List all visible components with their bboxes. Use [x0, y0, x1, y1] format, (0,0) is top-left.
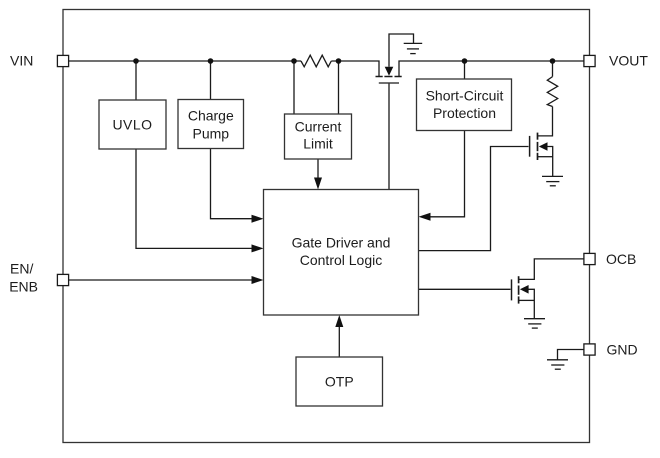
block Charge Pump [178, 100, 244, 149]
transistor Q1 body arrow [385, 67, 394, 76]
pin GND terminal [584, 344, 595, 355]
block Current Limit [285, 114, 352, 159]
svg-text:VIN: VIN [10, 53, 33, 69]
node SCP junction dot [462, 58, 468, 64]
transistor Q1 pass PMOS [376, 77, 402, 84]
wire Current Limit right tap [338, 61, 340, 114]
arrow into Gate Driver (EN) [252, 276, 264, 284]
IC outline border [63, 10, 590, 443]
block UVLO [99, 100, 166, 149]
wire VIN rail left segment [69, 60, 301, 62]
svg-text:Control Logic: Control Logic [300, 252, 383, 268]
wire Current Limit to Gate Driver [317, 159, 319, 179]
node sense resistor right dot [336, 58, 342, 64]
pin EN/ENB terminal [57, 274, 68, 285]
svg-text:ENB: ENB [9, 279, 38, 295]
ground (Q3 source) [524, 319, 545, 328]
transistor Q2 body arrow [539, 142, 548, 151]
transistor Q2 discharge NMOS [530, 133, 553, 177]
arrow into Gate Driver (UVLO) [252, 244, 264, 252]
wire GND pin to ground [558, 350, 584, 360]
arrow into Gate Driver (Charge Pump) [252, 215, 264, 223]
arrow into Gate Driver (OTP) [335, 315, 343, 327]
wire UVLO to Gate Driver [136, 149, 252, 248]
svg-text:GND: GND [607, 341, 638, 357]
svg-text:VOUT: VOUT [609, 53, 648, 69]
wire Current Limit left tap [293, 61, 295, 114]
wire Charge Pump drop [210, 61, 212, 100]
wire pass FET to VOUT pin [399, 61, 584, 77]
ground (GND pin) [547, 360, 568, 369]
wire Q1 gate to Gate Driver [388, 84, 390, 190]
wire Short-Circuit Protection drop [464, 61, 466, 79]
node VOUT feedback dot [550, 58, 556, 64]
svg-text:EN/: EN/ [10, 260, 33, 276]
wire UVLO drop [135, 61, 137, 100]
pin OCB terminal [584, 253, 595, 264]
resistor R-sense (horizontal zigzag) [301, 55, 331, 67]
svg-text:Gate Driver and: Gate Driver and [292, 235, 391, 251]
wire SCP to Gate Driver [430, 131, 465, 217]
wire Gate Driver to Q2 gate [419, 147, 529, 251]
wire Q1 body to gnd [389, 34, 414, 67]
block OTP [296, 357, 383, 406]
wire resistor to Q2 drain [538, 107, 553, 136]
ground (Q1 body) [404, 43, 423, 53]
svg-text:Protection: Protection [433, 105, 496, 121]
svg-text:Charge: Charge [188, 108, 234, 124]
wire VIN rail to pass FET [331, 61, 379, 77]
wire EN/ENB to Gate Driver [69, 279, 253, 281]
transistor Q3 OCB NMOS [512, 259, 585, 318]
svg-text:Pump: Pump [193, 125, 230, 141]
wire Charge Pump to Gate Driver [211, 149, 253, 219]
ground (Q2 source) [542, 176, 563, 185]
svg-text:Current: Current [295, 119, 342, 135]
arrow into Gate Driver (Current Limit) [314, 178, 322, 190]
transistor Q3 body arrow [520, 285, 529, 294]
arrow into Gate Driver (SCP) [419, 213, 431, 221]
resistor R-fb (vertical zigzag) [547, 77, 557, 107]
block Short-Circuit Protection [417, 79, 512, 131]
svg-text:Short-Circuit: Short-Circuit [426, 88, 504, 104]
wire VOUT sense top [552, 61, 554, 77]
svg-text:OCB: OCB [606, 251, 636, 267]
wire OTP to Gate Driver [338, 326, 340, 357]
svg-text:OTP: OTP [325, 373, 354, 389]
node VIN junction dot (Charge Pump) [208, 58, 214, 64]
wire Gate Driver to Q3 gate [419, 288, 511, 290]
pin VIN terminal [57, 55, 68, 66]
svg-text:UVLO: UVLO [112, 116, 152, 132]
pin VOUT terminal [584, 55, 595, 66]
node sense resistor left dot [291, 58, 297, 64]
block Gate Driver and Control Logic [264, 190, 419, 316]
svg-text:Limit: Limit [303, 135, 333, 151]
node VIN junction dot (UVLO) [133, 58, 139, 64]
